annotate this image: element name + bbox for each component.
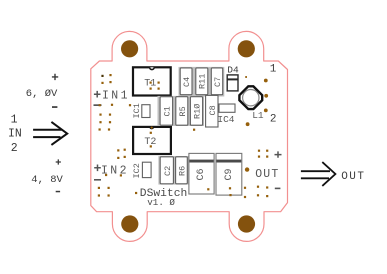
inductor L1 bbox=[239, 86, 264, 121]
vias in T2 bbox=[150, 132, 152, 148]
transistor T2 bbox=[133, 127, 171, 155]
capacitor C6 bbox=[189, 153, 214, 194]
via cluster IN1 lower bbox=[99, 114, 111, 124]
resistor R6 bbox=[176, 157, 188, 184]
diode D4 bbox=[227, 75, 238, 91]
silk minus IN2 bbox=[94, 179, 101, 181]
via cluster OUT bottom bbox=[257, 186, 268, 198]
svg-text:IC2: IC2 bbox=[132, 163, 142, 178]
silk label +IN2 bbox=[94, 164, 129, 177]
silk minus IN1 bbox=[94, 104, 102, 106]
silk minus OUT bbox=[275, 188, 281, 190]
svg-text:R1Ø: R1Ø bbox=[193, 104, 203, 119]
capacitor C4 bbox=[180, 68, 192, 95]
IC4 bbox=[217, 104, 235, 125]
mounting hole H2 bbox=[238, 40, 255, 57]
courtyard C4/R11/C7 bbox=[179, 67, 225, 97]
capacitor C9 bbox=[216, 153, 242, 195]
mounting hole H3 bbox=[121, 215, 138, 232]
svg-text:IC1: IC1 bbox=[132, 103, 142, 118]
svg-text:D4: D4 bbox=[227, 65, 239, 76]
courtyard C2/R6 bbox=[158, 156, 188, 185]
svg-text:1: 1 bbox=[270, 64, 277, 76]
silk plus OUT bbox=[275, 151, 282, 157]
capacitor C7 bbox=[211, 68, 223, 95]
svg-text:C2: C2 bbox=[163, 166, 173, 176]
svg-text:R5: R5 bbox=[178, 106, 188, 116]
mounting hole H1 bbox=[121, 40, 138, 57]
via cluster near IN1 top bbox=[101, 74, 111, 84]
board outline bbox=[91, 31, 288, 241]
via node OUT bbox=[245, 167, 249, 171]
svg-text:1: 1 bbox=[11, 114, 18, 127]
svg-text:C6: C6 bbox=[196, 168, 207, 180]
svg-text:R6: R6 bbox=[178, 166, 188, 176]
svg-text:v1. Ø: v1. Ø bbox=[147, 197, 175, 208]
svg-text:IC4: IC4 bbox=[217, 114, 234, 125]
capacitor C1 bbox=[160, 97, 173, 126]
label +4,8V supply bbox=[31, 159, 63, 192]
svg-text:IN: IN bbox=[8, 127, 22, 140]
svg-text:C8: C8 bbox=[208, 105, 218, 115]
arrow OUT bbox=[301, 162, 336, 186]
arrow IN bbox=[33, 122, 67, 145]
via cluster IN2 lower bbox=[98, 187, 110, 197]
via row under IN1 bbox=[99, 104, 131, 107]
IC1 bbox=[132, 103, 150, 118]
via pair IN1 bottom bbox=[99, 128, 111, 130]
resistor R10 bbox=[190, 97, 202, 126]
label IN pins 1/2 bbox=[8, 114, 22, 156]
svg-text:L1: L1 bbox=[252, 110, 264, 121]
via cluster OUT top bbox=[258, 150, 268, 158]
transistor T1 bbox=[133, 67, 171, 95]
svg-text:C1: C1 bbox=[163, 106, 173, 116]
svg-text:C4: C4 bbox=[182, 77, 192, 87]
via under IN2 bbox=[105, 174, 122, 177]
silk label DSwitch bbox=[135, 188, 187, 208]
capacitor C8 bbox=[206, 95, 218, 127]
vias near L1 bbox=[245, 76, 268, 126]
svg-text:2: 2 bbox=[11, 142, 18, 155]
svg-text:2: 2 bbox=[270, 114, 277, 126]
capacitor C2 bbox=[160, 157, 173, 184]
svg-text:6, ØV: 6, ØV bbox=[26, 88, 58, 100]
svg-text:C7: C7 bbox=[213, 77, 223, 87]
silk label +IN1 bbox=[94, 90, 130, 103]
svg-text:OUT: OUT bbox=[255, 168, 279, 181]
via under R10 bbox=[193, 129, 195, 131]
mounting hole H4 bbox=[238, 215, 255, 232]
resistor R11 bbox=[196, 68, 208, 95]
via cluster above IN2 bbox=[117, 149, 126, 159]
svg-text:R11: R11 bbox=[198, 74, 208, 89]
courtyard C1/R5/R10 bbox=[158, 96, 205, 126]
vias under C6/C9 bbox=[207, 187, 246, 198]
svg-text:C9: C9 bbox=[224, 168, 235, 180]
svg-text:IN1: IN1 bbox=[102, 90, 130, 103]
resistor R5 bbox=[176, 97, 188, 126]
svg-text:4, 8V: 4, 8V bbox=[31, 174, 63, 186]
IC2 bbox=[132, 162, 151, 178]
svg-text:OUT: OUT bbox=[341, 171, 365, 183]
label +6,0V supply bbox=[26, 74, 58, 108]
via cluster in T1 bbox=[150, 82, 160, 90]
